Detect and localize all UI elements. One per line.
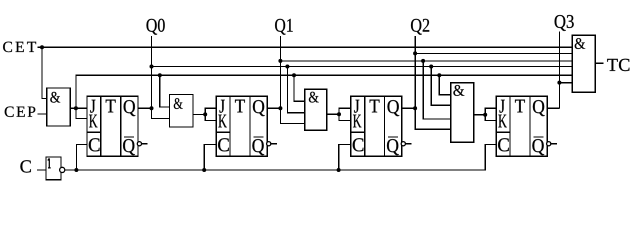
wire Q2 stem xyxy=(414,36,416,108)
jk-flip-flop FF3 xyxy=(351,96,412,156)
node G3 output junction xyxy=(337,112,341,116)
wire G2 output to FF2 J xyxy=(205,108,216,114)
node CC rail to G2 junction xyxy=(158,73,162,77)
wire clock riser to FF3 C xyxy=(339,145,351,171)
wire clock riser to FF1 C xyxy=(76,145,87,171)
output label Q3 xyxy=(555,15,574,31)
wire CC rail to G3 upper input xyxy=(294,75,305,101)
input label CEP xyxy=(5,106,36,116)
node CC rail to G4 junction xyxy=(437,73,441,77)
wire Q3 to TC gate input xyxy=(559,82,572,84)
node Q0 rail start junction xyxy=(150,65,154,69)
wire Q0 rail to G3 middle input xyxy=(287,67,304,113)
and-gate G4 xyxy=(451,83,474,143)
wire Q0 rail to G4 input xyxy=(431,67,451,106)
output label TC xyxy=(607,59,629,71)
wire G4 output to FF4 J xyxy=(485,108,496,115)
jk-flip-flop FF4 xyxy=(496,96,557,156)
wire G3 output to FF3 J xyxy=(339,108,351,114)
wire clock rail xyxy=(65,145,497,171)
jk-flip-flop FF2 xyxy=(216,96,277,156)
wire CET to G1 input xyxy=(42,47,47,98)
wire TC output xyxy=(595,62,603,64)
wire Q2 rail xyxy=(415,52,572,54)
node clock to FF1 junction xyxy=(74,168,78,172)
wire FF1 Q output xyxy=(138,107,152,109)
node Q2 rail start junction xyxy=(413,51,417,55)
and-gate G3 xyxy=(305,89,327,130)
wire G4 output xyxy=(474,114,486,116)
wire G2 output xyxy=(193,113,205,115)
wire G1 output to FF1 K xyxy=(76,108,87,118)
node G4 output junction xyxy=(483,113,487,117)
wire G2 output to FF2 K xyxy=(205,114,216,120)
input label C xyxy=(20,160,30,172)
wire CEP to G1 input xyxy=(38,113,47,115)
wire G1 output to FF1 J xyxy=(70,107,87,109)
node G1 output junction xyxy=(74,106,78,110)
wire Q0 rail xyxy=(152,66,573,68)
node CC rail to G3 junction xyxy=(292,73,296,77)
wire G3 output xyxy=(327,113,339,115)
and-gate G1 xyxy=(47,88,70,126)
node Q1 rail to G4 junction xyxy=(421,59,425,63)
node FF3 Q junction xyxy=(413,106,417,110)
wire Q3 stem xyxy=(558,32,560,109)
wire G3 output to FF3 K xyxy=(339,114,351,120)
output label Q0 xyxy=(147,19,165,35)
wire FF2 Q output xyxy=(267,107,280,109)
wire CC rail to G4 upper input xyxy=(439,75,451,94)
jk-flip-flop FF1 xyxy=(87,96,148,156)
wire G4 output to FF4 K xyxy=(485,115,496,121)
node FF2 Q junction xyxy=(278,106,282,110)
wire CET rail xyxy=(38,46,573,48)
node Q0 rail to G4 junction xyxy=(429,65,433,69)
wire FF1 Q to G2 lower input xyxy=(152,108,170,118)
output label Q2 xyxy=(411,19,429,35)
node CET branch junction xyxy=(40,45,44,49)
and-gate G2 xyxy=(170,95,194,127)
wire Q1 rail to G4 input xyxy=(423,61,451,119)
wire CET·CEP rail xyxy=(76,75,572,108)
node clock to FF3 junction xyxy=(337,168,341,172)
node FF1 Q junction xyxy=(150,106,154,110)
wire FF3 Q to G4 lower input xyxy=(415,108,451,129)
node Q0 rail to G3 junction xyxy=(285,65,289,69)
node Q1 rail start junction xyxy=(278,59,282,63)
inverter U1 xyxy=(46,157,65,180)
wire C to inverter xyxy=(37,169,46,171)
input label CET xyxy=(3,42,36,52)
node G2 output junction xyxy=(203,112,207,116)
wire Q1 rail xyxy=(280,60,572,62)
wire FF4 Q output to Q3 stem xyxy=(547,107,559,109)
wire FF2 Q to G3 lower input xyxy=(280,108,304,123)
wire FF3 Q output xyxy=(402,107,415,109)
wire Q1 stem xyxy=(279,36,281,108)
node Q3 to TC junction xyxy=(557,81,561,85)
and-gate G5 (terminal count) xyxy=(572,35,595,92)
wire clock riser to FF2 C xyxy=(204,145,216,171)
node clock to FF2 junction xyxy=(202,168,206,172)
wire Q0 stem xyxy=(151,36,153,108)
output label Q1 xyxy=(275,19,293,35)
wire CC rail to G2 upper input xyxy=(160,75,170,107)
